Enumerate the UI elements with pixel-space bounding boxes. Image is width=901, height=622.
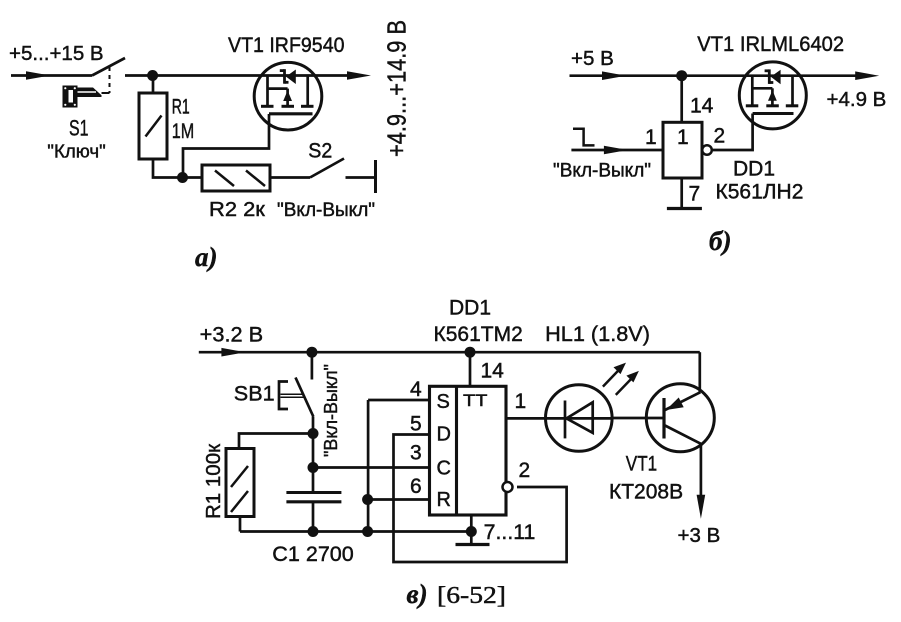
svg-text:в): в)	[407, 579, 428, 609]
wire ground lead v	[470, 515, 473, 543]
svg-text:С1 2700: С1 2700	[272, 543, 354, 566]
pushbutton SB1	[279, 352, 313, 433]
svg-text:HL1 (1.8V): HL1 (1.8V)	[545, 323, 650, 346]
svg-text:+5 В: +5 В	[571, 47, 614, 70]
svg-text:DD1: DD1	[733, 158, 775, 181]
wire pin14 lead v	[469, 352, 472, 386]
svg-text:S: S	[437, 391, 450, 413]
switch S1	[92, 58, 125, 93]
svg-text:6: 6	[410, 475, 422, 498]
node C1 bottom junction	[308, 526, 319, 537]
flip-flop DD1 box	[430, 386, 507, 515]
wire node to R1 top	[239, 434, 313, 449]
svg-text:VT1 IRF9540: VT1 IRF9540	[228, 34, 345, 57]
svg-text:ТТ: ТТ	[463, 391, 487, 410]
wire SB1 node to C1	[312, 434, 315, 468]
LED light arrows	[603, 363, 639, 395]
capacitor C1	[286, 468, 341, 532]
node SB1 bottom junction	[308, 428, 319, 439]
ground bar b	[667, 207, 702, 210]
svg-text:D: D	[437, 424, 451, 446]
output bubble pin 2 v	[503, 482, 513, 492]
svg-text:+4.9 В: +4.9 В	[827, 88, 887, 111]
wire input rail b	[570, 71, 880, 80]
inverter output bubble pin 2	[702, 145, 712, 155]
svg-text:+3 В: +3 В	[678, 524, 721, 547]
svg-text:1: 1	[645, 126, 657, 149]
wire R input	[368, 498, 430, 501]
wire inverter output to gate	[712, 114, 753, 151]
svg-text:VT1 IRLML6402: VT1 IRLML6402	[697, 33, 844, 56]
svg-text:К561ЛН2: К561ЛН2	[716, 181, 804, 204]
svg-text:"Вкл-Выкл": "Вкл-Выкл"	[553, 161, 651, 182]
svg-text:14: 14	[481, 360, 505, 383]
transistor VT1 KT208V	[646, 384, 714, 452]
wire input b	[571, 146, 663, 155]
resistor R2	[202, 165, 310, 191]
node R input junction	[362, 494, 373, 505]
svg-text:"Вкл-Выкл": "Вкл-Выкл"	[321, 364, 341, 457]
wire input rail v	[199, 348, 700, 357]
svg-text:S2: S2	[308, 140, 332, 163]
wire S-R common vertical	[367, 400, 370, 532]
transistor VT1 IRLML6402	[739, 62, 806, 129]
svg-text:7: 7	[689, 183, 701, 206]
svg-text:C: C	[437, 458, 451, 480]
node C input junction	[308, 462, 319, 473]
svg-text:R1 100к: R1 100к	[202, 443, 225, 519]
svg-text:1: 1	[515, 390, 527, 413]
svg-text:1М: 1М	[172, 120, 195, 143]
wire pin 1 output	[506, 417, 546, 420]
resistor R1 v	[226, 449, 254, 532]
svg-text:"Вкл-Выкл": "Вкл-Выкл"	[277, 200, 375, 221]
svg-text:КТ208В: КТ208В	[609, 481, 683, 504]
wire rail a to output	[125, 71, 371, 80]
transistor VT1 IRF9540	[254, 62, 322, 130]
svg-text:[6-52]: [6-52]	[437, 583, 506, 609]
svg-text:2: 2	[714, 125, 726, 148]
svg-text:5: 5	[410, 413, 422, 436]
svg-text:1: 1	[677, 126, 689, 149]
svg-text:3: 3	[410, 442, 422, 465]
svg-text:R: R	[437, 489, 451, 511]
gate DD1 inverter box	[663, 122, 702, 178]
svg-text:К561ТМ2: К561ТМ2	[434, 323, 523, 346]
wire input rail a	[11, 71, 92, 80]
svg-text:+4.9...+14.9 В: +4.9...+14.9 В	[382, 20, 412, 157]
node rail junction b	[676, 70, 687, 81]
svg-text:"Ключ": "Ключ"	[47, 142, 105, 162]
svg-text:б): б)	[709, 226, 731, 256]
svg-text:DD1: DD1	[449, 297, 491, 320]
node SR bottom junction	[362, 526, 373, 537]
wire VT1 collector output arrow	[697, 444, 706, 519]
svg-text:S1: S1	[69, 116, 89, 141]
svg-text:7...11: 7...11	[484, 521, 536, 544]
node SB1 rail junction	[306, 347, 317, 358]
wire VT1 gate to node	[183, 114, 269, 178]
wire node to R2	[183, 176, 203, 179]
node R1 top junction	[147, 70, 158, 81]
wire pin7 lead b	[680, 178, 683, 207]
node DD1 pin14 rail junction	[465, 347, 476, 358]
key symbol of S1	[63, 86, 102, 108]
wire C input	[313, 466, 430, 469]
wire D input loop from pin 2	[394, 435, 567, 563]
svg-text:+5...+15 В: +5...+15 В	[9, 42, 104, 65]
node R1-R2 junction	[177, 172, 188, 183]
svg-text:+3.2 В: +3.2 В	[200, 324, 264, 347]
resistor R1	[139, 76, 183, 178]
wire pin14 lead b	[680, 76, 683, 123]
svg-text:14: 14	[690, 95, 714, 118]
svg-text:а): а)	[195, 242, 218, 272]
svg-text:R1: R1	[172, 96, 190, 119]
ground bar v	[456, 543, 490, 546]
svg-text:VT1: VT1	[626, 453, 657, 476]
svg-text:2: 2	[519, 459, 531, 482]
LED HL1	[546, 385, 613, 452]
wire bottom common v	[240, 530, 471, 533]
pulse step symbol	[573, 129, 595, 146]
switch S2	[310, 159, 376, 194]
svg-text:4: 4	[410, 378, 422, 401]
svg-text:SB1: SB1	[234, 383, 275, 406]
wire LED to VT1 base	[612, 417, 664, 420]
wire S input	[368, 399, 430, 402]
wire rail drop to VT1 emitter	[698, 352, 701, 392]
svg-text:R2 2к: R2 2к	[209, 198, 266, 221]
node ground junction	[466, 526, 477, 537]
